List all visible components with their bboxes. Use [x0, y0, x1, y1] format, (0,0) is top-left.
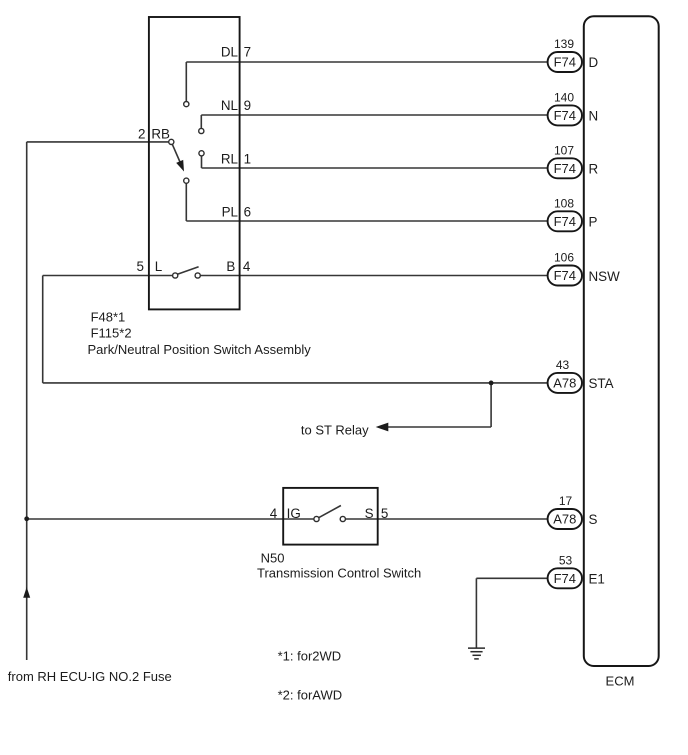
svg-text:PL: PL	[222, 204, 238, 219]
svg-text:4: 4	[243, 259, 251, 274]
svg-text:4: 4	[270, 506, 278, 521]
svg-text:43: 43	[556, 358, 570, 372]
svg-text:Park/Neutral Position Switch A: Park/Neutral Position Switch Assembly	[88, 342, 312, 357]
svg-text:9: 9	[244, 98, 251, 113]
svg-text:F74: F74	[554, 161, 576, 176]
svg-text:to ST Relay: to ST Relay	[301, 423, 369, 438]
svg-text:17: 17	[559, 494, 573, 508]
svg-text:7: 7	[244, 45, 251, 60]
svg-text:F74: F74	[554, 55, 576, 70]
svg-text:5: 5	[137, 259, 144, 274]
svg-text:106: 106	[554, 251, 574, 265]
svg-text:from RH ECU-IG NO.2 Fuse: from RH ECU-IG NO.2 Fuse	[8, 669, 172, 684]
svg-text:L: L	[155, 259, 162, 274]
svg-text:F74: F74	[554, 571, 576, 586]
svg-text:A78: A78	[553, 512, 576, 527]
svg-text:5: 5	[381, 506, 388, 521]
svg-text:N50: N50	[261, 550, 285, 565]
svg-text:NL: NL	[221, 98, 238, 113]
svg-text:R: R	[589, 161, 599, 176]
svg-text:F115*2: F115*2	[91, 326, 132, 341]
svg-text:*2: for: *2: for	[278, 688, 313, 703]
svg-text:NSW: NSW	[589, 269, 621, 284]
svg-text:S: S	[589, 512, 598, 527]
svg-text:6: 6	[244, 204, 251, 219]
svg-text:107: 107	[554, 144, 574, 158]
svg-text:E1: E1	[589, 571, 605, 586]
svg-text:F74: F74	[554, 268, 576, 283]
svg-text:IG: IG	[287, 506, 301, 521]
svg-text:2WD: 2WD	[312, 648, 341, 663]
svg-text:S: S	[365, 506, 374, 521]
svg-text:RB: RB	[151, 127, 170, 142]
svg-text:N: N	[589, 109, 599, 124]
svg-text:140: 140	[554, 91, 574, 105]
svg-text:AWD: AWD	[312, 688, 342, 703]
svg-text:F74: F74	[554, 108, 576, 123]
svg-text:A78: A78	[553, 376, 576, 391]
svg-text:53: 53	[559, 554, 573, 568]
svg-text:DL: DL	[221, 45, 238, 60]
svg-text:108: 108	[554, 197, 574, 211]
svg-text:D: D	[589, 55, 599, 70]
svg-text:ECM: ECM	[606, 674, 635, 689]
svg-text:STA: STA	[589, 376, 614, 391]
svg-text:2: 2	[138, 127, 145, 142]
svg-text:B: B	[226, 259, 235, 274]
svg-text:*1: for: *1: for	[278, 648, 313, 663]
svg-text:139: 139	[554, 37, 574, 51]
svg-text:1: 1	[244, 151, 251, 166]
svg-text:RL: RL	[221, 151, 238, 166]
svg-text:F48*1: F48*1	[91, 310, 126, 325]
svg-text:P: P	[589, 214, 598, 229]
svg-text:Transmission Control Switch: Transmission Control Switch	[257, 566, 421, 581]
svg-text:F74: F74	[554, 214, 576, 229]
